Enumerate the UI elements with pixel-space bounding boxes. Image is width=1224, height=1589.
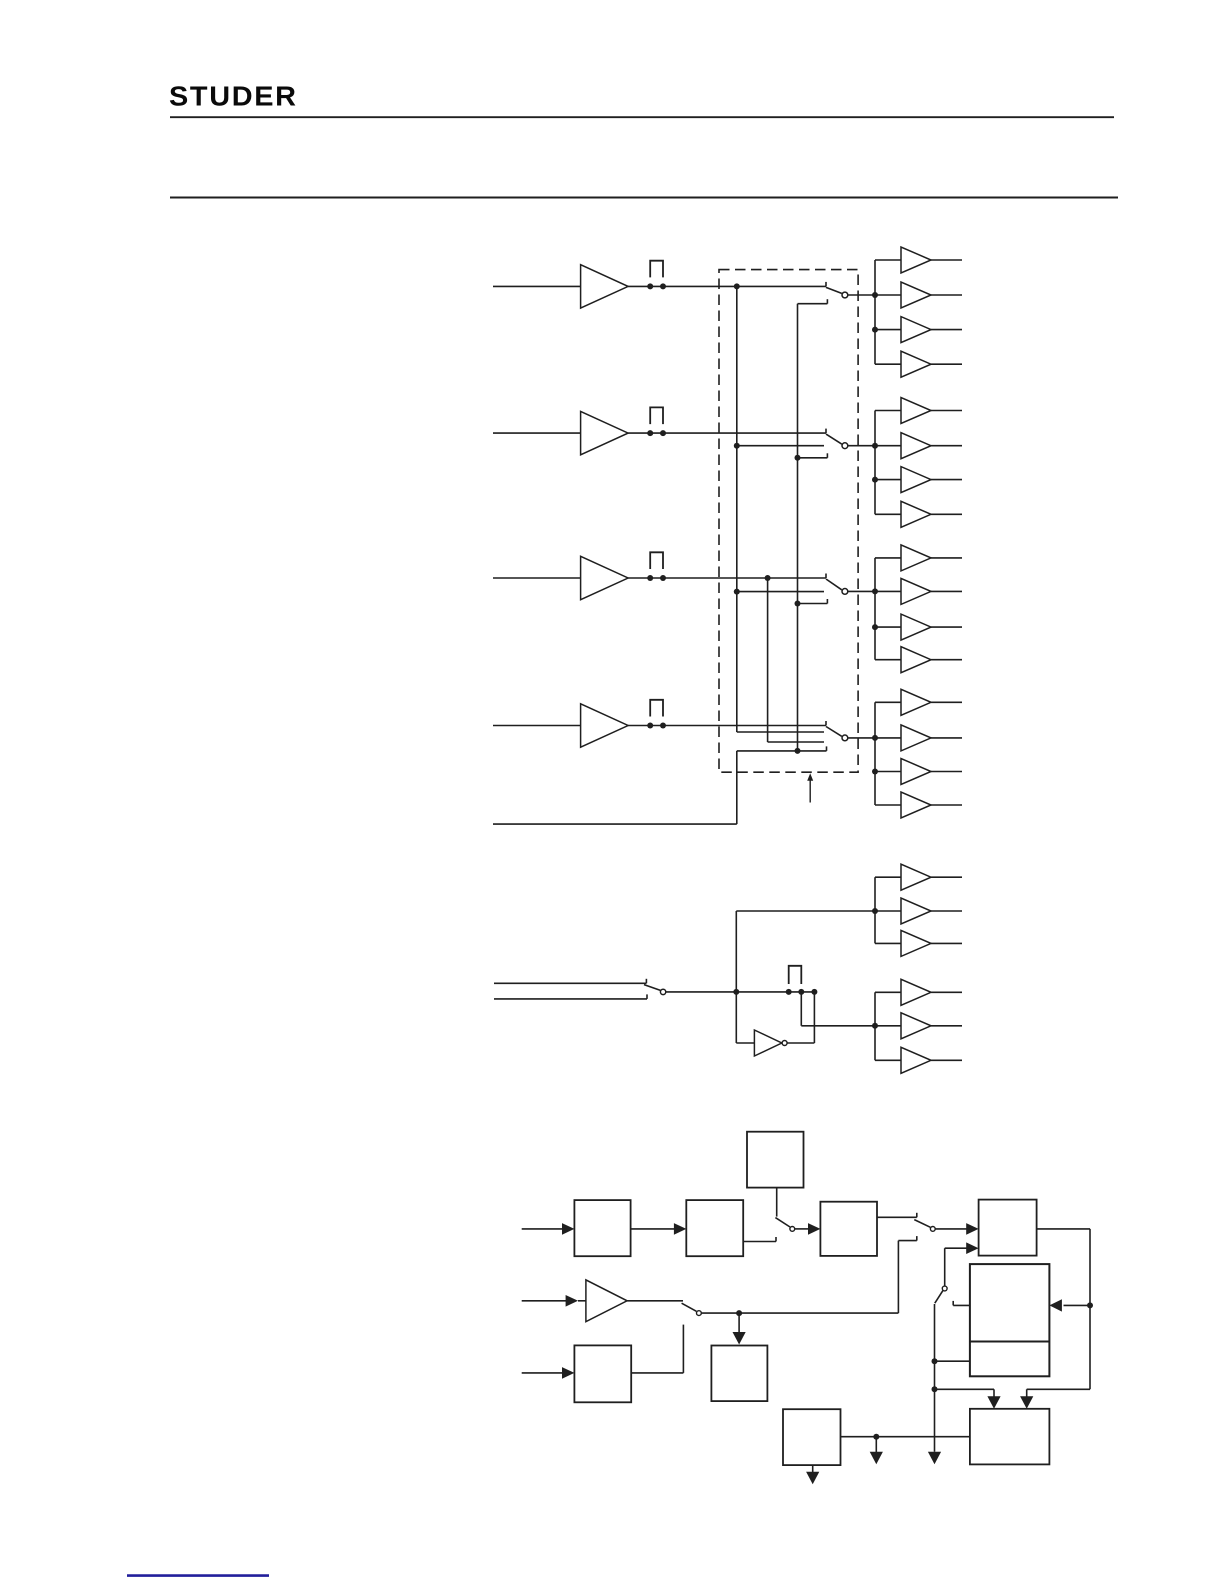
node bus dot row 4 a [872, 735, 878, 741]
line driver row 4 amp 2 [901, 725, 931, 751]
pulse symbol row 2 [650, 407, 663, 424]
wire output group5 amp 3 [931, 942, 962, 944]
wire switch to bus row 4 [848, 737, 875, 739]
wire branch row 2 amp 1 [875, 410, 901, 412]
bus C vertical [797, 304, 799, 751]
wire output row 4 amp 3 [931, 771, 962, 773]
node switch4 output dot [736, 1310, 742, 1316]
wire input 1 [522, 1228, 563, 1230]
block G [783, 1409, 841, 1465]
block H [574, 1345, 631, 1402]
pulse symbol row 4 [650, 700, 663, 717]
node bus dot row 2 b [872, 477, 878, 483]
wire tap b to group6 [800, 992, 802, 1026]
wire switch2 to D [936, 1228, 968, 1230]
node bus B row3 [765, 575, 771, 581]
line driver row 4 amp 4 [901, 792, 931, 818]
buffer amplifier row 3 [581, 556, 629, 599]
node bus dot row 3 a [872, 588, 878, 594]
line driver row 2 amp 3 [901, 467, 931, 493]
node bus C row2 [795, 455, 801, 461]
wire H output riser [631, 1372, 683, 1374]
block D [979, 1200, 1037, 1256]
line driver group6 amp 3 [901, 1047, 931, 1073]
switch pole circle row 3 [842, 589, 848, 595]
line driver group5 amp 1 [901, 864, 931, 890]
line driver row 1 amp 1 [901, 247, 931, 273]
wire riser to group5 [735, 911, 737, 992]
switch contact tick row 3 [825, 574, 827, 579]
line driver row 3 amp 2 [901, 578, 931, 604]
wire output row 4 amp 4 [931, 804, 962, 806]
wire rail to F [935, 1388, 995, 1390]
header rule top [170, 116, 1114, 118]
wire input 3 [522, 1372, 563, 1374]
fanout bus row 1 [874, 260, 876, 364]
wire branch group5 amp 3 [875, 942, 901, 944]
switch pole circle row 2 [842, 443, 848, 449]
node G output dot [873, 1434, 879, 1440]
wire input bottom contact middle switch [494, 998, 647, 1000]
node group5 bus dot [872, 908, 878, 914]
wire G output down arrow [875, 1437, 877, 1452]
line driver row 1 amp 3 [901, 317, 931, 343]
wire rail to E lower [935, 1360, 970, 1362]
node bus dot row 2 a [872, 443, 878, 449]
wire switch to bus row 1 [848, 294, 875, 296]
wire branch row 1 amp 3 [875, 329, 901, 331]
node tap dot b [798, 989, 804, 995]
contact stub row3 from bus A [737, 591, 824, 593]
line driver group5 amp 2 [901, 898, 931, 924]
dashed selector box [719, 270, 858, 773]
wire output group6 amp 1 [931, 991, 962, 993]
fanout bus row 4 [874, 702, 876, 805]
wire branch group5 amp 1 [875, 876, 901, 878]
contact stub row3 from bus C [798, 603, 828, 605]
wire branch row 3 amp 2 [875, 590, 901, 592]
switch2 blade [914, 1220, 930, 1228]
switch3 pole circle [942, 1286, 947, 1291]
wire branch row 1 amp 1 [875, 259, 901, 261]
wire switch to bus row 3 [848, 590, 875, 592]
wire buffer2 output [627, 1300, 683, 1302]
wire buffer output row 3 [628, 577, 826, 579]
block E divider [970, 1341, 1050, 1343]
wire branch row 4 amp 3 [875, 771, 901, 773]
wire branch group6 amp 3 [875, 1059, 901, 1061]
inverter bubble [782, 1041, 787, 1046]
wire branch row 3 amp 3 [875, 626, 901, 628]
fanout bus group5 [874, 877, 876, 943]
wire switch4 output [702, 1312, 899, 1314]
line driver row 3 amp 1 [901, 545, 931, 571]
wire loop into E [1064, 1304, 1091, 1306]
buffer amplifier bottom [586, 1280, 627, 1322]
wire input row 2 [493, 432, 581, 434]
wire output row 1 amp 1 [931, 259, 962, 261]
wire C output contact [877, 1216, 917, 1218]
line driver row 2 amp 4 [901, 501, 931, 527]
switch contact tick row 2 [825, 429, 827, 434]
line driver row 1 amp 4 [901, 351, 931, 377]
node bus A row3 [734, 589, 740, 595]
wire input 2 [522, 1300, 567, 1302]
line driver group6 amp 1 [901, 979, 931, 1005]
wire output row 3 amp 4 [931, 659, 962, 661]
switch contact tick row 1 [825, 282, 827, 287]
node tap dot c [811, 989, 817, 995]
wire output row 3 amp 1 [931, 557, 962, 559]
node bus dot row 4 b [872, 769, 878, 775]
fanout bus row 2 [874, 411, 876, 515]
wire external riser [736, 751, 738, 824]
wire output row 1 amp 3 [931, 329, 962, 331]
switch4 pole circle [697, 1311, 702, 1316]
block E [970, 1264, 1050, 1376]
wire switch to bus row 2 [848, 445, 875, 447]
pulse symbol middle [789, 966, 802, 984]
block F [970, 1409, 1050, 1465]
switch pole circle row 4 [842, 735, 848, 741]
middle switch blade [644, 985, 661, 991]
line driver row 3 amp 4 [901, 647, 931, 673]
buffer amplifier row 4 [581, 704, 629, 747]
wire branch row 1 amp 2 [875, 294, 901, 296]
switch3 blade [935, 1291, 943, 1304]
node group6 bus dot [872, 1023, 878, 1029]
wire B lower contact [743, 1241, 776, 1243]
switch1 pole circle [790, 1227, 795, 1232]
node rail dot upper [932, 1358, 938, 1364]
node bus A row1 [734, 283, 740, 289]
wire branch row 3 amp 4 [875, 659, 901, 661]
block C [820, 1202, 877, 1256]
control arrow into selector box [809, 780, 811, 803]
bus B vertical [767, 578, 769, 742]
switch blade row 2 [826, 434, 842, 444]
wire output row 1 amp 4 [931, 363, 962, 365]
node rail dot lower [932, 1386, 938, 1392]
wire inverter output [787, 1042, 814, 1044]
wire output row 4 amp 2 [931, 737, 962, 739]
wire branch group5 amp 2 [875, 910, 901, 912]
switch contact tick row 4 [825, 721, 827, 726]
wire output row 2 amp 1 [931, 410, 962, 412]
wire G bottom down arrow [812, 1465, 814, 1472]
wire output group6 amp 2 [931, 1025, 962, 1027]
fanout bus group6 [874, 992, 876, 1060]
wire switch to junction [666, 991, 736, 993]
switch1 blade [775, 1218, 790, 1227]
wire output row 2 amp 3 [931, 479, 962, 481]
line driver row 2 amp 2 [901, 433, 931, 459]
wire branch row 4 amp 2 [875, 737, 901, 739]
wire branch group6 amp 1 [875, 991, 901, 993]
header rule bottom [170, 197, 1118, 199]
switch blade row 1 [826, 287, 842, 293]
wire T down to switch1 [776, 1188, 778, 1217]
svg-text:STUDER: STUDER [169, 81, 298, 113]
wire branch row 2 amp 3 [875, 479, 901, 481]
node middle junction [733, 989, 739, 995]
reference box T [747, 1132, 804, 1188]
contact stub row2 from bus A [737, 445, 824, 447]
wire down into I [738, 1313, 740, 1333]
contact stub row4 from bus B [768, 741, 824, 743]
contact stub row4 from bus A [737, 731, 824, 733]
wire lower contact riser [897, 1241, 899, 1314]
wire branch group6 amp 2 [875, 1025, 901, 1027]
fanout bus row 3 [874, 558, 876, 660]
wire buffer output row 4 [628, 725, 826, 727]
line driver row 4 amp 3 [901, 759, 931, 785]
node tap dot a [786, 989, 792, 995]
line driver row 4 amp 1 [901, 689, 931, 715]
wire output group6 amp 3 [931, 1059, 962, 1061]
node loop dot [1087, 1302, 1093, 1308]
wire switch1 to C [795, 1228, 809, 1230]
buffer amplifier row 2 [581, 411, 629, 454]
pulse symbol row 3 [650, 552, 663, 569]
wire output group5 amp 1 [931, 876, 962, 878]
switch2 lower contact [898, 1240, 916, 1242]
wire branch row 1 amp 4 [875, 363, 901, 365]
wire to buffer2 [578, 1300, 586, 1302]
contact stub row4 external [737, 750, 827, 752]
block I [711, 1346, 767, 1402]
wire input row 4 [493, 725, 581, 727]
rail vertical [934, 1304, 936, 1452]
wire branch row 3 amp 1 [875, 557, 901, 559]
node bus A row2 [734, 443, 740, 449]
wire branch row 2 amp 2 [875, 445, 901, 447]
switch blade row 3 [826, 579, 842, 590]
wire buffer output row 1 [628, 285, 826, 287]
node dots pulse tap row 4 [647, 723, 653, 729]
buffer amplifier row 1 [581, 265, 629, 308]
contact stub row2 from bus C [798, 457, 828, 459]
wire external input row 5 [493, 823, 737, 825]
wire output row 4 amp 1 [931, 701, 962, 703]
node bus dot row 1 b [872, 327, 878, 333]
line driver group5 amp 3 [901, 930, 931, 956]
footer blue mark [127, 1574, 269, 1577]
wire loop bottom to F [1027, 1388, 1090, 1390]
wire junction down to inverter [735, 992, 737, 1043]
wire output row 2 amp 2 [931, 445, 962, 447]
wire output row 3 amp 3 [931, 626, 962, 628]
wire branch row 4 amp 4 [875, 804, 901, 806]
wire input row 3 [493, 577, 581, 579]
wire input top contact middle switch [494, 982, 646, 984]
wire branch row 4 amp 1 [875, 701, 901, 703]
line driver row 2 amp 1 [901, 398, 931, 424]
wire G to F [841, 1436, 970, 1438]
wire D feedback loop [1037, 1228, 1090, 1230]
wire buffer output row 2 [628, 432, 826, 434]
node bus C row3 [795, 601, 801, 607]
wire branch row 2 amp 4 [875, 513, 901, 515]
line driver row 1 amp 2 [901, 282, 931, 308]
wire output row 3 amp 2 [931, 590, 962, 592]
node dots pulse tap row 3 [647, 575, 653, 581]
wire output row 1 amp 2 [931, 294, 962, 296]
switch pole circle row 1 [842, 292, 848, 298]
middle switch pole circle [660, 989, 665, 994]
node dots pulse tap row 2 [647, 430, 653, 436]
wire input row 1 [493, 285, 581, 287]
node bus dot row 3 b [872, 624, 878, 630]
wire middle main to taps [736, 991, 814, 993]
block A [574, 1200, 630, 1256]
contact stub row1 from bus C [798, 303, 828, 305]
pulse symbol row 1 [650, 261, 663, 278]
block B [686, 1200, 743, 1256]
wire switch3 to D [944, 1248, 946, 1286]
node dots pulse tap row 1 [647, 283, 653, 289]
node bus C row4 [795, 748, 801, 754]
wire output row 2 amp 4 [931, 513, 962, 515]
inverter gate [754, 1030, 781, 1056]
line driver group6 amp 2 [901, 1013, 931, 1039]
node bus dot row 1 a [872, 292, 878, 298]
contact stub into E [953, 1304, 970, 1306]
switch4 blade [682, 1303, 697, 1311]
bus A vertical [736, 286, 738, 732]
switch blade row 4 [826, 727, 842, 737]
wire A to B [631, 1228, 675, 1230]
wire output group5 amp 2 [931, 910, 962, 912]
switch2 pole circle [930, 1227, 935, 1232]
line driver row 3 amp 3 [901, 614, 931, 640]
